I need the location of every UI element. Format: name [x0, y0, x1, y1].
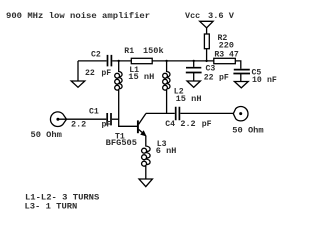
wire C2 ground corner to C2	[78, 60, 107, 62]
wire input to C1	[58, 118, 106, 120]
resistor R2	[204, 34, 209, 49]
svg-text:C4: C4	[165, 120, 175, 129]
node junction dots	[118, 60, 120, 62]
transistor T1	[137, 120, 139, 133]
svg-text:15 nH: 15 nH	[176, 95, 202, 104]
wire C2 to R1	[112, 60, 131, 62]
inductor L3	[142, 136, 151, 179]
svg-text:pF: pF	[219, 74, 229, 83]
svg-text:R1: R1	[124, 47, 134, 56]
svg-text:3.6 V: 3.6 V	[208, 12, 234, 21]
capacitor C4	[176, 107, 180, 121]
ground below C2	[77, 61, 79, 81]
svg-text:Vcc: Vcc	[185, 12, 200, 21]
svg-text:220: 220	[219, 42, 234, 51]
capacitor C3	[193, 61, 195, 67]
svg-text:47: 47	[229, 50, 239, 59]
svg-text:15 nH: 15 nH	[128, 73, 154, 82]
svg-text:L1-L2- 3 TURNS: L1-L2- 3 TURNS	[25, 194, 99, 203]
svg-text:C3: C3	[206, 65, 216, 74]
svg-text:2.2: 2.2	[71, 121, 86, 130]
svg-text:2.2: 2.2	[180, 120, 195, 129]
ground below L3	[139, 179, 152, 187]
svg-text:150k: 150k	[143, 46, 164, 56]
Vcc supply symbol	[200, 21, 213, 28]
svg-text:900 MHz low noise amplifier: 900 MHz low noise amplifier	[6, 11, 150, 21]
svg-text:50 Ohm: 50 Ohm	[31, 130, 62, 140]
wire C1 to base node	[112, 118, 119, 120]
svg-text:6 nH: 6 nH	[156, 147, 177, 156]
wire C4 to output	[180, 112, 233, 114]
capacitor C1	[107, 113, 111, 125]
capacitor C2	[108, 55, 112, 67]
svg-text:pF: pF	[102, 121, 112, 130]
resistor R3	[214, 58, 236, 63]
capacitor C5	[233, 70, 250, 74]
wire Vcc to R2	[206, 28, 208, 34]
svg-text:22: 22	[85, 69, 95, 78]
output port 50 Ohm	[233, 107, 248, 121]
wire R3 to C5	[235, 61, 241, 69]
wire R2 to rail	[206, 49, 208, 61]
svg-text:nF: nF	[267, 76, 277, 85]
svg-text:10: 10	[252, 76, 262, 85]
svg-text:BFG505: BFG505	[106, 139, 137, 148]
inductor L2	[163, 61, 170, 114]
ground below C5	[234, 82, 248, 88]
svg-text:L3- 1 TURN: L3- 1 TURN	[25, 203, 78, 212]
wire collector to C4	[146, 112, 175, 114]
svg-text:22: 22	[204, 74, 214, 83]
ground below C3	[187, 81, 200, 87]
input port 50 Ohm	[50, 112, 66, 127]
inductor L1	[115, 61, 137, 126]
svg-text:pF: pF	[202, 120, 212, 129]
svg-text:C2: C2	[91, 51, 101, 60]
svg-text:pF: pF	[101, 69, 111, 78]
resistor R1	[131, 58, 152, 63]
svg-text:50 Ohm: 50 Ohm	[232, 125, 263, 135]
wire R1 to R3	[152, 60, 214, 62]
svg-text:C1: C1	[89, 108, 99, 117]
svg-text:R3: R3	[214, 50, 224, 59]
